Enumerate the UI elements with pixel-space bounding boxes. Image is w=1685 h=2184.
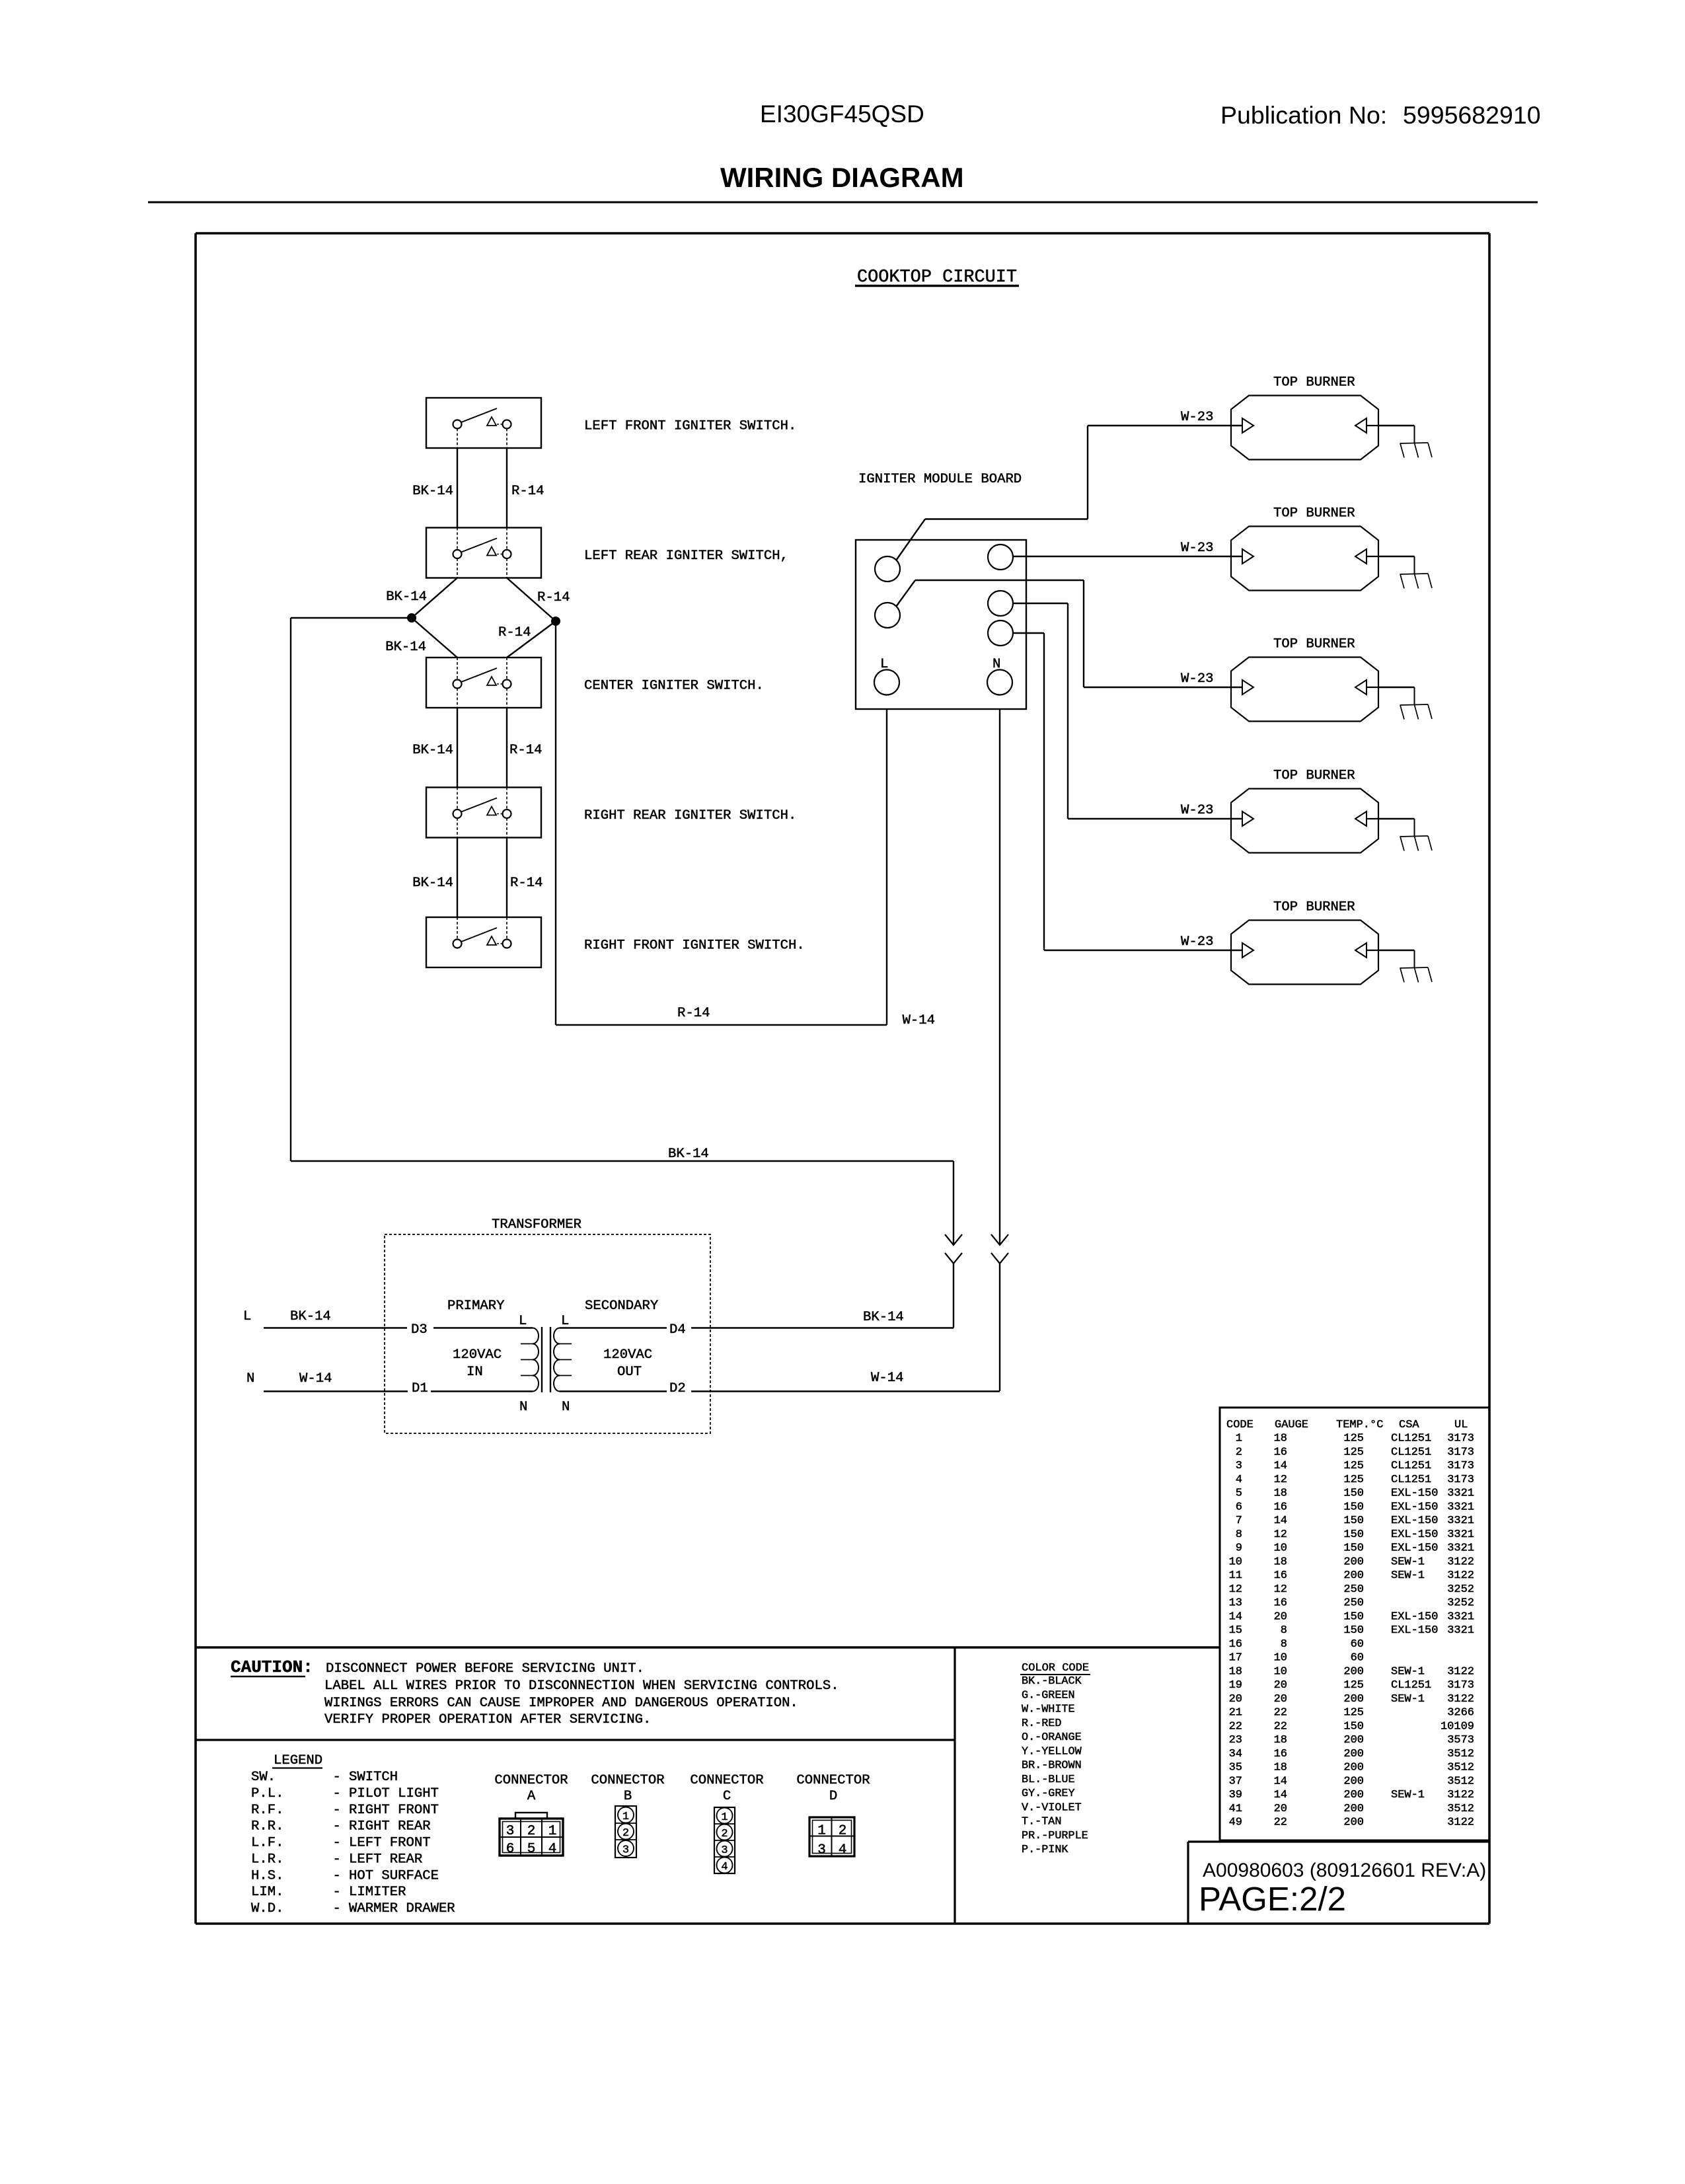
svg-text:34: 34 — [1229, 1748, 1242, 1760]
svg-text:3173: 3173 — [1447, 1474, 1474, 1486]
svg-text:3: 3 — [506, 1824, 515, 1839]
svg-text:W-23: W-23 — [1181, 671, 1213, 687]
svg-text:12: 12 — [1274, 1528, 1287, 1541]
svg-text:3321: 3321 — [1447, 1515, 1474, 1527]
svg-text:35: 35 — [1229, 1762, 1242, 1774]
svg-text:3512: 3512 — [1447, 1762, 1474, 1774]
svg-text:150: 150 — [1343, 1610, 1364, 1623]
svg-text:200: 200 — [1343, 1693, 1364, 1706]
color code title — [1020, 1662, 1090, 1675]
svg-text:2: 2 — [721, 1828, 728, 1840]
svg-text:LEGEND: LEGEND — [274, 1753, 322, 1768]
node L line input — [243, 1309, 533, 1328]
svg-text:R-14: R-14 — [537, 590, 570, 605]
legend title — [272, 1753, 322, 1768]
svg-text:C: C — [723, 1789, 731, 1804]
svg-text:3321: 3321 — [1447, 1610, 1474, 1623]
svg-text:-: - — [333, 1885, 341, 1900]
header publication number — [1220, 101, 1541, 129]
svg-text:UL: UL — [1454, 1419, 1468, 1431]
wire diamond SW2 to SW3 — [385, 578, 570, 658]
svg-text:10: 10 — [1274, 1652, 1287, 1665]
svg-text:L.F.: L.F. — [251, 1836, 283, 1851]
svg-text:150: 150 — [1343, 1542, 1364, 1555]
svg-text:R-14: R-14 — [510, 876, 543, 891]
svg-text:SEW-1: SEW-1 — [1391, 1789, 1425, 1801]
wire W-23 to top burner 1 — [896, 410, 1242, 560]
junction node R — [552, 617, 560, 625]
connector chevrons W wire — [991, 1234, 1008, 1263]
transformer primary/secondary labels — [447, 1299, 658, 1415]
wire SW3 to SW4 (BK-14 / R-14) — [412, 708, 542, 788]
svg-text:6: 6 — [1236, 1501, 1242, 1513]
heading COOKTOP CIRCUIT — [855, 268, 1019, 287]
wire gauge table rows — [1229, 1433, 1474, 1829]
svg-text:150: 150 — [1343, 1528, 1364, 1541]
svg-text:EXL-150: EXL-150 — [1391, 1624, 1438, 1637]
svg-text:PAGE:2/2: PAGE:2/2 — [1199, 1880, 1346, 1918]
wire D4 BK-14 output — [560, 1310, 954, 1328]
svg-text:150: 150 — [1343, 1487, 1364, 1500]
svg-text:TRANSFORMER: TRANSFORMER — [492, 1217, 581, 1232]
svg-text:TOP BURNER: TOP BURNER — [1273, 506, 1355, 521]
svg-text:120VAC: 120VAC — [603, 1347, 652, 1363]
svg-text:18: 18 — [1274, 1487, 1287, 1500]
svg-text:20: 20 — [1274, 1610, 1287, 1623]
transformer core — [542, 1327, 550, 1392]
svg-text:EXL-150: EXL-150 — [1391, 1528, 1438, 1541]
svg-text:W.-WHITE: W.-WHITE — [1022, 1704, 1075, 1716]
svg-text:3: 3 — [721, 1844, 728, 1857]
svg-text:IN: IN — [467, 1365, 483, 1380]
svg-text:200: 200 — [1343, 1569, 1364, 1582]
svg-text:14: 14 — [1274, 1775, 1287, 1788]
svg-text:12: 12 — [1274, 1583, 1287, 1596]
svg-text:R-14: R-14 — [511, 484, 544, 499]
top burner 3 — [1231, 637, 1432, 722]
svg-text:V.-VIOLET: V.-VIOLET — [1022, 1801, 1082, 1814]
svg-text:CENTER IGNITER SWITCH.: CENTER IGNITER SWITCH. — [584, 679, 764, 694]
color code list — [1022, 1675, 1088, 1856]
svg-text:3252: 3252 — [1447, 1583, 1474, 1596]
svg-text:CONNECTOR: CONNECTOR — [591, 1773, 664, 1788]
svg-text:CL1251: CL1251 — [1391, 1446, 1431, 1458]
svg-text:14: 14 — [1274, 1515, 1287, 1527]
wire gauge table box — [1220, 1408, 1489, 1840]
svg-text:20: 20 — [1274, 1693, 1287, 1706]
svg-text:3122: 3122 — [1447, 1665, 1474, 1678]
svg-text:CODE: CODE — [1226, 1419, 1254, 1431]
svg-text:COLOR CODE: COLOR CODE — [1022, 1662, 1089, 1675]
document number — [1203, 1860, 1486, 1881]
header model number — [760, 100, 924, 128]
terminal D1 — [412, 1381, 428, 1396]
svg-text:3573: 3573 — [1447, 1734, 1474, 1747]
svg-text:60: 60 — [1351, 1638, 1364, 1651]
svg-text:CONNECTOR: CONNECTOR — [494, 1773, 568, 1788]
svg-text:22: 22 — [1229, 1720, 1242, 1733]
svg-text:IGNITER MODULE BOARD: IGNITER MODULE BOARD — [858, 472, 1022, 487]
svg-text:BL.-BLUE: BL.-BLUE — [1022, 1774, 1075, 1786]
terminal D3 — [411, 1322, 428, 1337]
svg-text:6: 6 — [506, 1842, 515, 1857]
svg-text:D4: D4 — [669, 1322, 686, 1337]
svg-text:EXL-150: EXL-150 — [1391, 1501, 1438, 1513]
svg-text:D1: D1 — [412, 1381, 428, 1396]
svg-text:W-23: W-23 — [1181, 410, 1213, 425]
wire BK-14 bus left — [291, 618, 412, 1161]
svg-text:BK.-BLACK: BK.-BLACK — [1022, 1675, 1082, 1688]
svg-text:CL1251: CL1251 — [1391, 1679, 1431, 1692]
svg-text:SEW-1: SEW-1 — [1391, 1556, 1425, 1568]
svg-text:49: 49 — [1229, 1817, 1242, 1829]
svg-text:L: L — [243, 1309, 251, 1324]
svg-text:SEW-1: SEW-1 — [1391, 1665, 1425, 1678]
SW1 left front igniter switch — [426, 398, 796, 448]
caution box — [196, 1647, 1220, 1924]
svg-text:Y.-YELLOW: Y.-YELLOW — [1022, 1745, 1082, 1758]
transformer secondary winding — [554, 1328, 572, 1392]
svg-text:W-23: W-23 — [1181, 541, 1213, 556]
terminal D2 — [669, 1381, 686, 1396]
svg-text:125: 125 — [1343, 1433, 1364, 1445]
svg-text:LIM.: LIM. — [251, 1885, 283, 1900]
top burner 1 — [1231, 375, 1432, 460]
svg-text:W-14: W-14 — [903, 1013, 935, 1028]
svg-text:3173: 3173 — [1447, 1433, 1474, 1445]
svg-text:W.D.: W.D. — [251, 1901, 283, 1916]
SW2 left rear igniter switch — [426, 528, 788, 578]
svg-text:3512: 3512 — [1447, 1748, 1474, 1760]
svg-text:N: N — [992, 657, 1000, 672]
page title WIRING DIAGRAM — [720, 162, 964, 193]
svg-text:2: 2 — [1236, 1446, 1242, 1458]
svg-text:N: N — [246, 1371, 254, 1386]
svg-text:BK-14: BK-14 — [385, 640, 426, 655]
connector A — [494, 1773, 568, 1857]
svg-text:18: 18 — [1274, 1734, 1287, 1747]
svg-text:SW.: SW. — [251, 1770, 276, 1785]
svg-text:RIGHT FRONT IGNITER SWITCH.: RIGHT FRONT IGNITER SWITCH. — [584, 938, 805, 954]
svg-text:4: 4 — [721, 1861, 728, 1873]
svg-text:16: 16 — [1274, 1569, 1287, 1582]
svg-text:39: 39 — [1229, 1789, 1242, 1801]
svg-text:4: 4 — [1236, 1474, 1242, 1486]
svg-text:1: 1 — [817, 1824, 826, 1839]
svg-text:RIGHT REAR: RIGHT REAR — [349, 1819, 431, 1834]
svg-text:RIGHT FRONT: RIGHT FRONT — [349, 1803, 439, 1818]
top burner 2 — [1231, 506, 1432, 591]
svg-text:H.S.: H.S. — [251, 1868, 283, 1883]
svg-text:18: 18 — [1274, 1762, 1287, 1774]
svg-text:EXL-150: EXL-150 — [1391, 1487, 1438, 1500]
page number — [1199, 1880, 1346, 1918]
svg-text:W-23: W-23 — [1181, 803, 1213, 818]
svg-text:HOT SURFACE: HOT SURFACE — [349, 1868, 439, 1883]
svg-text:2: 2 — [839, 1824, 847, 1839]
top burner 5 — [1231, 900, 1432, 985]
svg-text:3266: 3266 — [1447, 1707, 1474, 1719]
svg-text:11: 11 — [1229, 1569, 1242, 1582]
svg-text:1: 1 — [622, 1811, 629, 1823]
transformer primary winding — [521, 1328, 539, 1392]
svg-text:3321: 3321 — [1447, 1542, 1474, 1555]
svg-text:1: 1 — [721, 1811, 728, 1824]
svg-text:EXL-150: EXL-150 — [1391, 1610, 1438, 1623]
svg-text:3122: 3122 — [1447, 1693, 1474, 1706]
svg-text:200: 200 — [1343, 1789, 1364, 1801]
svg-text:D: D — [829, 1789, 837, 1804]
svg-text:3122: 3122 — [1447, 1569, 1474, 1582]
igniter module board U1 — [856, 540, 1026, 709]
svg-text:P.L.: P.L. — [251, 1786, 283, 1801]
svg-text:SWITCH: SWITCH — [349, 1770, 398, 1785]
svg-text:200: 200 — [1343, 1762, 1364, 1774]
wire SW1 to SW2 (BK-14 / R-14) — [412, 448, 544, 528]
svg-text:T.-TAN: T.-TAN — [1022, 1816, 1061, 1828]
svg-text:N: N — [519, 1400, 527, 1415]
svg-text:WIRING DIAGRAM: WIRING DIAGRAM — [720, 162, 964, 193]
svg-text:R.R.: R.R. — [251, 1819, 283, 1834]
svg-text:-: - — [333, 1868, 341, 1883]
svg-text:22: 22 — [1274, 1817, 1287, 1829]
title rule — [148, 202, 1538, 204]
svg-text:3512: 3512 — [1447, 1775, 1474, 1788]
svg-text:16: 16 — [1274, 1446, 1287, 1458]
svg-text:8: 8 — [1236, 1528, 1242, 1541]
svg-text:TOP BURNER: TOP BURNER — [1273, 375, 1355, 391]
svg-text:CSA: CSA — [1399, 1419, 1419, 1431]
svg-text:LIMITER: LIMITER — [349, 1885, 406, 1900]
caution body text — [324, 1661, 839, 1727]
svg-text:200: 200 — [1343, 1556, 1364, 1568]
svg-text:BK-14: BK-14 — [412, 484, 453, 499]
svg-text:D2: D2 — [669, 1381, 686, 1396]
svg-text:B: B — [624, 1789, 632, 1804]
svg-text:GY.-GREY: GY.-GREY — [1022, 1788, 1075, 1800]
svg-text:5: 5 — [527, 1842, 536, 1857]
svg-text:3: 3 — [1236, 1460, 1242, 1472]
wire W-23 to top burner 5 — [1013, 633, 1242, 950]
svg-text:3: 3 — [817, 1843, 826, 1858]
wire BK-14 drop to transformer — [953, 1161, 954, 1328]
svg-text:150: 150 — [1343, 1624, 1364, 1637]
svg-text:D3: D3 — [411, 1322, 428, 1337]
svg-text:R-14: R-14 — [498, 625, 531, 640]
svg-text:3512: 3512 — [1447, 1803, 1474, 1815]
svg-text:5: 5 — [1236, 1487, 1242, 1500]
svg-text:250: 250 — [1343, 1597, 1364, 1610]
svg-text:1: 1 — [1236, 1433, 1242, 1445]
svg-text:RIGHT REAR IGNITER SWITCH.: RIGHT REAR IGNITER SWITCH. — [584, 808, 796, 823]
wire W-23 to top burner 2 — [1013, 541, 1242, 556]
SW3 center igniter switch — [426, 658, 764, 708]
svg-text:17: 17 — [1229, 1652, 1242, 1665]
svg-text:1: 1 — [548, 1824, 557, 1839]
svg-text:10: 10 — [1274, 1542, 1287, 1555]
svg-text:125: 125 — [1343, 1679, 1364, 1692]
schematic outer border — [196, 233, 1489, 1924]
svg-text:BK-14: BK-14 — [863, 1310, 904, 1325]
wire W-23 to top burner 3 — [896, 580, 1242, 687]
svg-text:4: 4 — [548, 1842, 557, 1857]
svg-text:7: 7 — [1236, 1515, 1242, 1527]
svg-text:18: 18 — [1274, 1433, 1287, 1445]
svg-text:SECONDARY: SECONDARY — [585, 1299, 658, 1314]
svg-text:10: 10 — [1229, 1556, 1242, 1568]
svg-text:LEFT REAR IGNITER SWITCH,: LEFT REAR IGNITER SWITCH, — [584, 548, 788, 564]
transformer T1 dashed box — [385, 1234, 710, 1433]
svg-text:200: 200 — [1343, 1803, 1364, 1815]
svg-text:41: 41 — [1229, 1803, 1242, 1815]
svg-text:CL1251: CL1251 — [1391, 1474, 1431, 1486]
svg-text:-: - — [333, 1786, 341, 1801]
svg-text:COOKTOP CIRCUIT: COOKTOP CIRCUIT — [857, 268, 1017, 287]
svg-text:WARMER DRAWER: WARMER DRAWER — [349, 1901, 455, 1916]
svg-text:A: A — [527, 1789, 536, 1804]
svg-text:OUT: OUT — [617, 1365, 642, 1380]
svg-text:DISCONNECT POWER BEFORE SERVIC: DISCONNECT POWER BEFORE SERVICING UNIT. — [326, 1661, 644, 1676]
wire SW4 to SW5 (BK-14 / R-14) — [412, 838, 543, 918]
svg-text:14: 14 — [1274, 1789, 1287, 1801]
svg-text:150: 150 — [1343, 1720, 1364, 1733]
svg-text:120VAC: 120VAC — [453, 1347, 502, 1363]
svg-text:3173: 3173 — [1447, 1460, 1474, 1472]
svg-text:200: 200 — [1343, 1734, 1364, 1747]
svg-text:60: 60 — [1351, 1652, 1364, 1665]
svg-text:200: 200 — [1343, 1665, 1364, 1678]
svg-text:22: 22 — [1274, 1720, 1287, 1733]
legend entries — [251, 1770, 455, 1916]
svg-text:20: 20 — [1274, 1679, 1287, 1692]
svg-text:3321: 3321 — [1447, 1624, 1474, 1637]
svg-text:8: 8 — [1281, 1624, 1287, 1637]
caution title — [231, 1657, 313, 1677]
connector B — [591, 1773, 664, 1858]
svg-text:16: 16 — [1229, 1638, 1242, 1651]
svg-text:150: 150 — [1343, 1515, 1364, 1527]
svg-text:CL1251: CL1251 — [1391, 1460, 1431, 1472]
svg-text:-: - — [333, 1819, 341, 1834]
svg-text:22: 22 — [1274, 1707, 1287, 1719]
svg-text:200: 200 — [1343, 1775, 1364, 1788]
wire D2 W-14 output — [560, 1371, 1000, 1392]
svg-text:2: 2 — [622, 1827, 629, 1840]
svg-text:WIRINGS ERRORS CAN CAUSE IMPRO: WIRINGS ERRORS CAN CAUSE IMPROPER AND DA… — [324, 1696, 798, 1711]
svg-text:3173: 3173 — [1447, 1446, 1474, 1458]
svg-text:5995682910: 5995682910 — [1403, 101, 1541, 129]
svg-text:L: L — [519, 1314, 527, 1329]
svg-text:LEFT FRONT IGNITER SWITCH.: LEFT FRONT IGNITER SWITCH. — [584, 419, 796, 434]
igniter module board label — [858, 472, 1022, 487]
svg-text:EXL-150: EXL-150 — [1391, 1542, 1438, 1555]
svg-text:15: 15 — [1229, 1624, 1242, 1637]
svg-text:16: 16 — [1274, 1597, 1287, 1610]
svg-text:CONNECTOR: CONNECTOR — [796, 1773, 870, 1788]
svg-text:CAUTION:: CAUTION: — [231, 1657, 313, 1677]
svg-text:125: 125 — [1343, 1446, 1364, 1458]
svg-text:W-14: W-14 — [871, 1371, 903, 1386]
svg-text:-: - — [333, 1901, 341, 1916]
svg-text:16: 16 — [1274, 1748, 1287, 1760]
svg-text:14: 14 — [1229, 1610, 1242, 1623]
wire gauge table header — [1226, 1419, 1468, 1431]
svg-text:3321: 3321 — [1447, 1487, 1474, 1500]
svg-text:18: 18 — [1229, 1665, 1242, 1678]
svg-text:CL1251: CL1251 — [1391, 1433, 1431, 1445]
svg-text:10109: 10109 — [1441, 1720, 1474, 1733]
svg-text:10: 10 — [1274, 1665, 1287, 1678]
svg-text:3122: 3122 — [1447, 1556, 1474, 1568]
svg-text:-: - — [333, 1803, 341, 1818]
page number box — [1188, 1842, 1489, 1924]
svg-text:13: 13 — [1229, 1597, 1242, 1610]
terminal D4 — [669, 1322, 686, 1337]
svg-text:VERIFY PROPER OPERATION AFTER: VERIFY PROPER OPERATION AFTER SERVICING. — [324, 1712, 651, 1727]
svg-text:TOP BURNER: TOP BURNER — [1273, 769, 1355, 784]
svg-text:R-14: R-14 — [677, 1006, 710, 1021]
svg-text:8: 8 — [1281, 1638, 1287, 1651]
svg-text:W-14: W-14 — [299, 1371, 332, 1386]
transformer label — [492, 1217, 581, 1232]
svg-text:EI30GF45QSD: EI30GF45QSD — [760, 100, 924, 128]
svg-text:P.-PINK: P.-PINK — [1022, 1844, 1068, 1856]
svg-text:16: 16 — [1274, 1501, 1287, 1513]
svg-text:21: 21 — [1229, 1707, 1242, 1719]
connector D — [796, 1773, 870, 1858]
svg-text:LABEL ALL WIRES PRIOR TO DISCO: LABEL ALL WIRES PRIOR TO DISCONNECTION W… — [324, 1678, 839, 1694]
svg-text:20: 20 — [1229, 1693, 1242, 1706]
svg-text:TOP BURNER: TOP BURNER — [1273, 900, 1355, 915]
svg-text:TEMP.°C: TEMP.°C — [1336, 1419, 1383, 1431]
SW5 right front igniter switch — [426, 917, 805, 967]
connector chevrons BK wire — [945, 1234, 962, 1263]
svg-text:3: 3 — [622, 1844, 629, 1857]
svg-text:PILOT LIGHT: PILOT LIGHT — [349, 1786, 439, 1801]
svg-text:BR.-BROWN: BR.-BROWN — [1022, 1760, 1082, 1772]
svg-text:BK-14: BK-14 — [412, 743, 453, 758]
svg-text:250: 250 — [1343, 1583, 1364, 1596]
svg-text:G.-GREEN: G.-GREEN — [1022, 1689, 1075, 1702]
svg-text:SEW-1: SEW-1 — [1391, 1693, 1425, 1706]
svg-text:LEFT REAR: LEFT REAR — [349, 1852, 422, 1867]
svg-text:A00980603 (809126601 REV:A): A00980603 (809126601 REV:A) — [1203, 1860, 1486, 1881]
svg-text:12: 12 — [1229, 1583, 1242, 1596]
svg-text:L: L — [561, 1314, 569, 1329]
node N neutral input — [246, 1371, 533, 1392]
wire W-23 to top burner 4 — [1013, 603, 1242, 819]
svg-text:O.-ORANGE: O.-ORANGE — [1022, 1731, 1082, 1744]
junction node BK — [408, 614, 416, 622]
svg-text:3173: 3173 — [1447, 1679, 1474, 1692]
svg-text:125: 125 — [1343, 1474, 1364, 1486]
svg-text:200: 200 — [1343, 1817, 1364, 1829]
svg-text:Publication No:: Publication No: — [1220, 101, 1387, 129]
svg-text:3252: 3252 — [1447, 1597, 1474, 1610]
svg-text:-: - — [333, 1836, 341, 1851]
svg-text:LEFT FRONT: LEFT FRONT — [349, 1836, 431, 1851]
svg-text:18: 18 — [1274, 1556, 1287, 1568]
svg-text:TOP BURNER: TOP BURNER — [1273, 637, 1355, 652]
svg-text:R.-RED: R.-RED — [1022, 1717, 1061, 1730]
svg-text:CONNECTOR: CONNECTOR — [690, 1773, 763, 1788]
svg-text:PR.-PURPLE: PR.-PURPLE — [1022, 1830, 1088, 1842]
svg-text:150: 150 — [1343, 1501, 1364, 1513]
svg-text:2: 2 — [527, 1824, 536, 1839]
svg-text:23: 23 — [1229, 1734, 1242, 1747]
svg-text:3321: 3321 — [1447, 1528, 1474, 1541]
svg-text:W-23: W-23 — [1181, 934, 1213, 950]
